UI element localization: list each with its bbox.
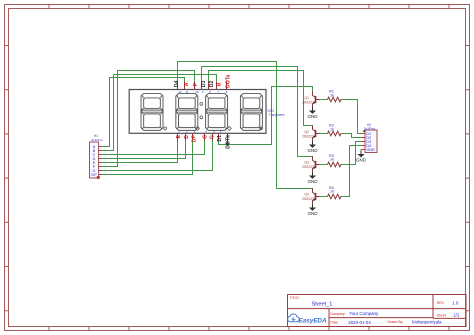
svg-text:TITLE:: TITLE: [290, 296, 300, 300]
svg-text:D1: D1 [217, 135, 223, 142]
svg-text:2N2222: 2N2222 [302, 135, 314, 139]
svg-text:REV:: REV: [437, 301, 445, 305]
svg-text:EasyEDA: EasyEDA [299, 317, 327, 324]
svg-text:Q1: Q1 [304, 96, 309, 100]
svg-text:1.0: 1.0 [452, 300, 459, 305]
svg-text:DS2: DS2 [268, 109, 275, 113]
svg-text:11: 11 [185, 90, 188, 94]
svg-text:Date:: Date: [330, 321, 338, 325]
svg-text:D4: D4 [174, 80, 180, 87]
svg-text:Company:: Company: [330, 312, 346, 316]
svg-text:1k: 1k [330, 190, 334, 194]
svg-text:Q4: Q4 [304, 192, 309, 196]
svg-text:2020-01-04: 2020-01-04 [348, 320, 371, 325]
svg-text:B: B [217, 82, 223, 86]
svg-text:Drawn By:: Drawn By: [388, 320, 404, 324]
svg-text:D3: D3 [201, 80, 207, 87]
svg-text:1k: 1k [330, 158, 334, 162]
svg-text:DP: DP [192, 134, 198, 142]
svg-text:7 segment: 7 segment [269, 113, 285, 117]
svg-text:A: A [184, 82, 190, 86]
svg-text:2N2222: 2N2222 [302, 197, 314, 201]
svg-text:Your Company: Your Company [349, 311, 379, 316]
svg-text:DOTk: DOTk [225, 135, 231, 149]
svg-text:C: C [203, 135, 209, 139]
svg-text:2N2222: 2N2222 [302, 165, 314, 169]
svg-text:D: D [184, 135, 190, 139]
svg-text:Sheet:: Sheet: [437, 313, 447, 317]
svg-text:12: 12 [178, 90, 182, 94]
svg-text:9: 9 [202, 90, 204, 94]
svg-text:10: 10 [195, 90, 199, 94]
svg-text:1/1: 1/1 [453, 312, 460, 317]
svg-text:1k: 1k [330, 127, 334, 131]
svg-text:Q3: Q3 [304, 160, 309, 164]
svg-text:E: E [176, 134, 182, 138]
svg-text:6: 6 [226, 90, 228, 94]
svg-text:DOTa: DOTa [225, 74, 231, 88]
svg-text:GND: GND [366, 148, 375, 152]
svg-text:F: F [193, 83, 199, 86]
svg-text:1k: 1k [330, 93, 334, 97]
svg-text:Q2: Q2 [304, 130, 309, 134]
svg-text:2N2222: 2N2222 [302, 101, 314, 105]
svg-text:D2: D2 [209, 80, 215, 87]
svg-text:Sheet_1: Sheet_1 [312, 301, 333, 307]
svg-text:8x1Pins: 8x1Pins [92, 138, 103, 142]
svg-text:kishanpentyala: kishanpentyala [412, 320, 442, 325]
svg-text:G: G [209, 135, 215, 139]
svg-text:DP: DP [91, 173, 97, 177]
